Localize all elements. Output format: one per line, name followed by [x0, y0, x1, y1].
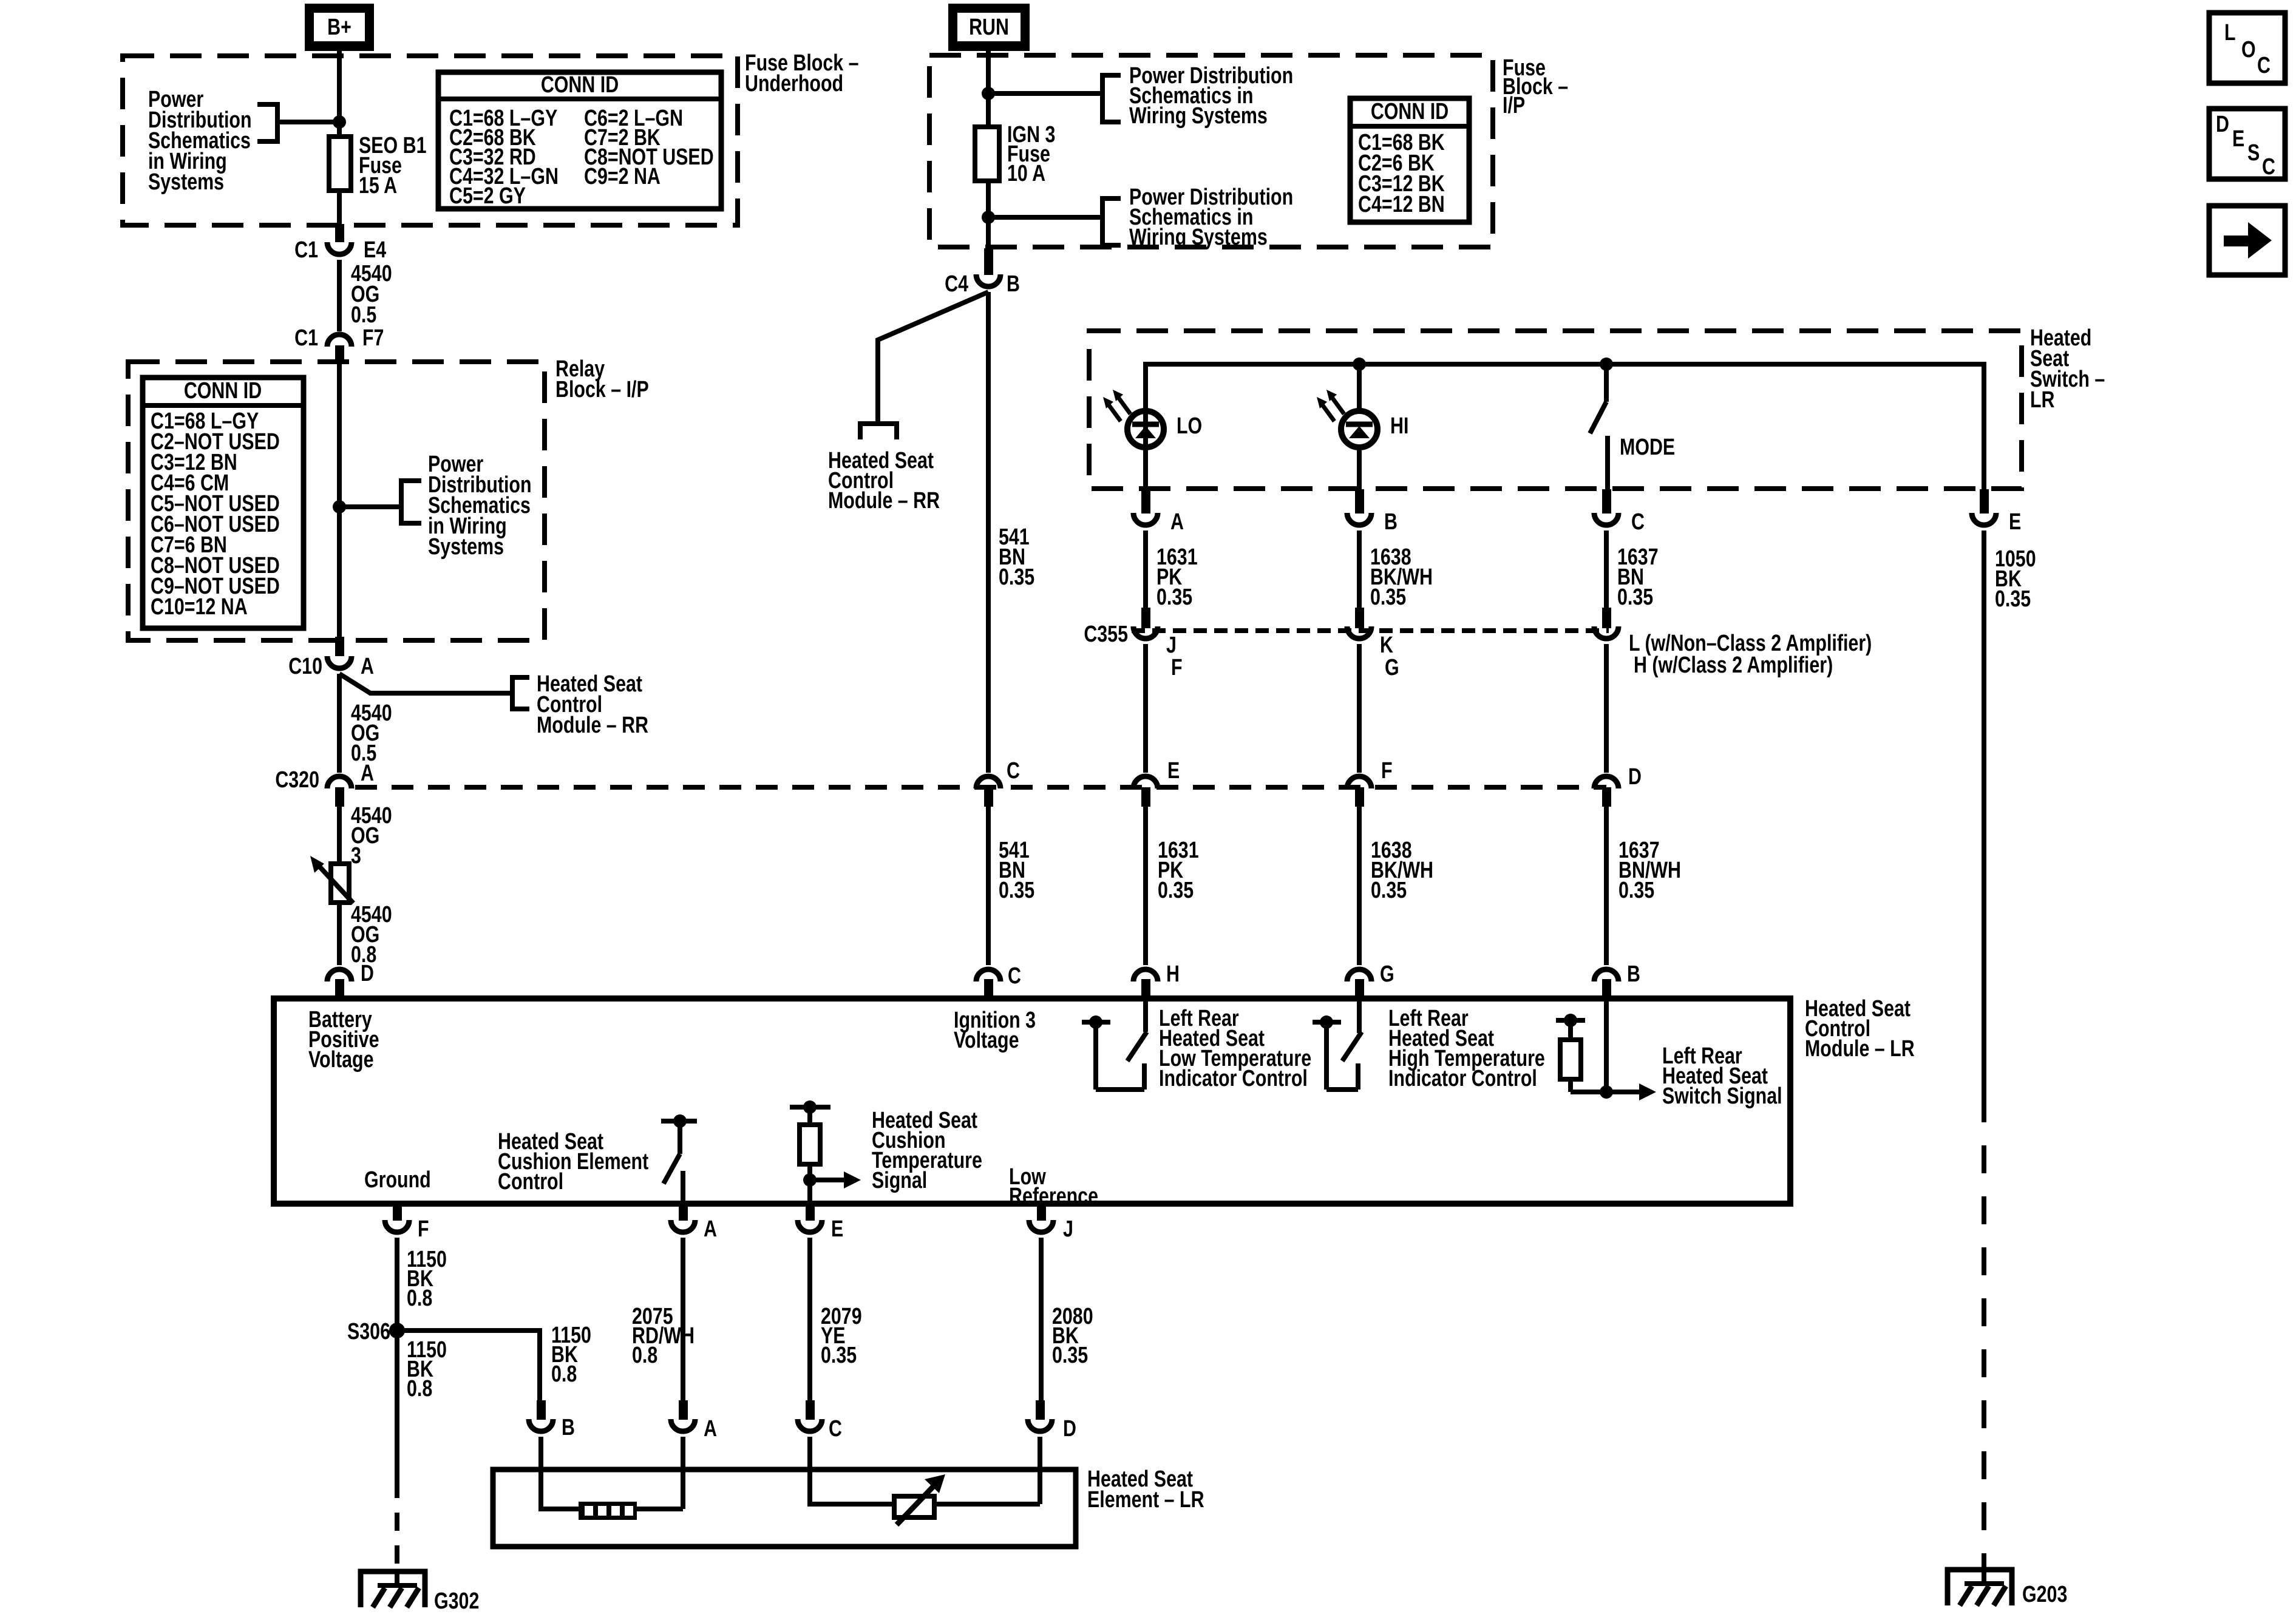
DESC navigation box [2209, 109, 2285, 179]
svg-text:C5=2 GY: C5=2 GY [449, 183, 526, 209]
Heated Seat Control Module - LR box [274, 998, 1790, 1204]
svg-text:MODE: MODE [1620, 435, 1675, 460]
connector pin B (module LR) [1594, 969, 1618, 981]
temperature signal arrow [810, 1178, 845, 1182]
connector pin E (module LR) [806, 1205, 815, 1221]
svg-text:C: C [1631, 509, 1645, 535]
svg-text:0.35: 0.35 [821, 1343, 857, 1368]
Fuse Block - Underhood dashed box [123, 56, 738, 225]
svg-text:C10=12 NA: C10=12 NA [151, 594, 248, 620]
junction dot (ign feed upper) [982, 87, 995, 100]
svg-text:G: G [1385, 655, 1399, 680]
svg-text:H: H [1166, 961, 1180, 987]
wire fuse to lower junction [986, 181, 991, 248]
svg-text:Module – RR: Module – RR [537, 713, 648, 738]
connector C1 cavity F7 [327, 334, 352, 347]
wire to module pin C [986, 807, 991, 965]
wire C355 K to C320 F [1357, 644, 1362, 773]
svg-text:Module – RR: Module – RR [828, 488, 940, 514]
wire C355 L to C320 D [1604, 644, 1609, 773]
dashed wire to G302 [395, 1480, 399, 1570]
indicator LED LO [1127, 411, 1164, 447]
wire MODE to C355 [1604, 531, 1609, 609]
connector D (heated seat element) [1036, 1400, 1045, 1420]
connector C (switch to harness) [1602, 489, 1611, 514]
svg-text:0.35: 0.35 [1371, 878, 1407, 903]
wire C355 J to C320 E [1143, 644, 1148, 773]
svg-text:Indicator Control: Indicator Control [1159, 1066, 1308, 1091]
svg-text:Switch Signal: Switch Signal [1662, 1083, 1782, 1109]
wire element C drop [810, 1437, 894, 1504]
wire S306 branch to element B [397, 1331, 540, 1400]
next-page arrow box [2209, 206, 2285, 275]
svg-text:0.35: 0.35 [1370, 585, 1406, 610]
wire to lower reference bracket [988, 215, 1100, 220]
wire element D drop [1038, 1437, 1042, 1504]
wire to module pin D [337, 903, 342, 965]
svg-text:C1: C1 [294, 325, 318, 351]
low temperature indicator control switch [1082, 1020, 1110, 1025]
wire C320 E to module pin H [1143, 807, 1148, 965]
power symbol B+ box [305, 4, 374, 51]
connector C355 cavity K/G [1355, 608, 1364, 628]
connector E (switch to harness) [1980, 489, 1989, 514]
LOC navigation box [2209, 13, 2285, 83]
svg-text:RUN: RUN [969, 15, 1009, 40]
svg-text:K: K [1380, 632, 1393, 658]
CONN ID table (fuse block underhood) [438, 72, 721, 209]
svg-text:0.8: 0.8 [551, 1361, 577, 1387]
connector C10 cavity A [335, 637, 344, 656]
svg-text:E4: E4 [364, 237, 386, 263]
svg-text:Voltage: Voltage [308, 1047, 374, 1073]
ground G302 [361, 1571, 425, 1607]
high temperature indicator control switch [1313, 1020, 1341, 1025]
reference bracket (power distribution, I/P lower) [1102, 198, 1121, 245]
svg-text:E: E [1167, 758, 1180, 784]
svg-text:C: C [2262, 154, 2275, 180]
svg-text:L: L [2224, 20, 2236, 46]
svg-text:Wiring Systems: Wiring Systems [1129, 225, 1268, 250]
svg-text:O: O [2241, 37, 2256, 63]
svg-text:CONN ID: CONN ID [541, 72, 619, 98]
svg-text:Systems: Systems [428, 534, 504, 560]
reference bracket (power distribution, I/P upper) [1102, 75, 1121, 122]
wire B+ down to fuse SEO B1 [337, 51, 342, 139]
Fuse Block - I/P dashed box [929, 55, 1493, 247]
cushion temperature sense resistor [790, 1105, 830, 1110]
wire pin B to switch signal node [1604, 1002, 1609, 1092]
svg-text:Reference: Reference [1009, 1184, 1098, 1209]
svg-text:0.35: 0.35 [999, 564, 1034, 590]
variable resistance in power feed [331, 864, 349, 903]
connector C355 cavity J/F [1141, 608, 1150, 628]
connector pin H (module LR) [1133, 969, 1158, 981]
svg-text:CONN ID: CONN ID [1371, 99, 1449, 124]
svg-text:Indicator Control: Indicator Control [1388, 1066, 1537, 1091]
in-line connector C355 dotted line [1132, 628, 1609, 633]
connector C (heated seat element) [806, 1400, 815, 1420]
wire junction to reference bracket [279, 120, 339, 124]
svg-text:0.35: 0.35 [1617, 585, 1653, 610]
MODE switch blade [1604, 364, 1609, 402]
switch signal arrow [1606, 1090, 1640, 1094]
svg-text:J: J [1166, 632, 1177, 658]
svg-text:LO: LO [1177, 413, 1202, 439]
wire element B drop [541, 1437, 579, 1509]
connector A (heated seat element) [679, 1400, 688, 1420]
svg-text:0.35: 0.35 [1158, 878, 1194, 903]
wire to connector C1/F7 [337, 260, 342, 331]
svg-text:A: A [361, 654, 374, 679]
connector pin G (module LR) [1347, 969, 1371, 981]
svg-text:Control: Control [498, 1169, 563, 1195]
svg-text:D: D [1063, 1416, 1076, 1442]
wire element A drop [681, 1437, 685, 1509]
junction dot (HI branch) [1353, 358, 1366, 371]
svg-text:C1: C1 [294, 237, 318, 263]
svg-text:H (w/Class 2 Amplifier): H (w/Class 2 Amplifier) [1634, 653, 1833, 678]
svg-text:0.8: 0.8 [632, 1343, 657, 1368]
svg-text:HI: HI [1390, 413, 1408, 439]
svg-text:Signal: Signal [872, 1168, 927, 1193]
splice S306 [389, 1323, 405, 1338]
svg-text:F: F [418, 1216, 429, 1242]
svg-text:C320: C320 [275, 767, 319, 793]
svg-text:Module – LR: Module – LR [1805, 1036, 1915, 1062]
svg-text:0.5: 0.5 [351, 302, 376, 328]
svg-text:Element – LR: Element – LR [1087, 1487, 1204, 1513]
svg-text:Voltage: Voltage [954, 1028, 1019, 1053]
svg-text:D: D [2216, 112, 2229, 137]
fuse IGN 3 10A [975, 127, 999, 181]
svg-text:J: J [1063, 1216, 1073, 1242]
switch supply bus wire [1146, 364, 1984, 489]
svg-text:0.35: 0.35 [1995, 586, 2031, 612]
switch signal sense resistor [1556, 1018, 1585, 1023]
svg-text:C: C [1007, 758, 1020, 784]
svg-text:C10: C10 [288, 654, 322, 679]
wire switch E down (1050 BK) [1982, 531, 1986, 1094]
C320 connector dashed line [355, 785, 1606, 790]
connector C355 cavity L/H [1602, 608, 1611, 628]
reference bracket (power distribution, underhood) [257, 104, 277, 141]
svg-text:E: E [2232, 126, 2244, 152]
CONN ID table (fuse block I/P) [1350, 98, 1469, 222]
svg-text:G302: G302 [434, 1588, 479, 1614]
svg-text:C9=2 NA: C9=2 NA [584, 164, 661, 189]
connector C1 cavity E4 [335, 224, 344, 242]
dashed wire 1050 BK to G203 [1982, 1094, 1986, 1568]
wire junction to relay reference bracket [339, 504, 401, 509]
connector pin C (module LR) [976, 969, 1000, 981]
svg-text:C: C [2257, 53, 2271, 78]
svg-text:G203: G203 [2022, 1582, 2067, 1607]
ignition symbol RUN box [948, 4, 1030, 51]
wire C10/A down to C320 [337, 674, 342, 773]
svg-text:3: 3 [351, 843, 361, 869]
svg-text:E: E [831, 1216, 843, 1242]
svg-text:C4=12 BN: C4=12 BN [1358, 192, 1445, 217]
wire element to A drop [637, 1507, 683, 1511]
svg-text:Underhood: Underhood [745, 71, 843, 97]
svg-text:Block – I/P: Block – I/P [555, 377, 649, 402]
connector B (heated seat element) [537, 1400, 546, 1420]
junction dot (MODE branch) [1600, 358, 1613, 371]
svg-text:C: C [1008, 963, 1021, 989]
svg-text:0.35: 0.35 [1156, 585, 1192, 610]
connector pin A (module LR) [679, 1205, 688, 1221]
connector pin D (module LR) [327, 969, 352, 981]
svg-text:C355: C355 [1084, 622, 1128, 647]
wire pin J down [1039, 1238, 1044, 1400]
connector pin J (module LR) [1037, 1205, 1046, 1221]
Relay Block - I/P dashed box [128, 362, 545, 640]
in-line connector C320 cavity D [1594, 776, 1618, 788]
junction dot (temperature signal) [803, 1173, 817, 1187]
svg-text:E: E [2009, 509, 2021, 535]
wire C320 D to module pin B [1604, 807, 1609, 965]
junction dot (ign feed lower) [982, 211, 995, 224]
wire branch to Heated Seat Control Module RR bracket [339, 674, 512, 693]
svg-text:A: A [361, 761, 374, 786]
svg-text:A: A [704, 1416, 717, 1442]
svg-text:S: S [2247, 140, 2260, 166]
svg-text:0.35: 0.35 [999, 878, 1034, 903]
ground G203 [1948, 1570, 2012, 1605]
wire C320 F to module pin G [1357, 807, 1362, 965]
in-line connector C320 cavity E [1133, 776, 1158, 788]
wire S306 down [395, 1331, 399, 1480]
wire branch to Heated Seat Control Module RR bracket (top) [878, 292, 988, 424]
wire to upper reference bracket [988, 91, 1100, 96]
wire lamp LO to C355 [1143, 531, 1148, 609]
svg-text:10 A: 10 A [1007, 161, 1045, 186]
svg-text:C: C [829, 1416, 842, 1442]
wire F7 down through relay block [337, 362, 342, 638]
wire fuse to connector C1/E4 [337, 191, 342, 225]
wire RUN down [986, 51, 991, 129]
svg-text:C4: C4 [945, 271, 968, 297]
svg-text:D: D [1628, 764, 1642, 790]
svg-text:F: F [1381, 758, 1393, 784]
svg-text:B: B [562, 1415, 575, 1440]
wire C320/A down to splice resistance [337, 807, 342, 865]
thermistor (element temperature sensor) [894, 1496, 934, 1517]
heater element (cushion) [579, 1502, 637, 1520]
Heated Seat Switch - LR dashed box [1089, 331, 2022, 489]
svg-text:F: F [1171, 655, 1183, 680]
svg-text:A: A [1170, 509, 1184, 535]
reference bracket (module RR, top) [860, 424, 897, 439]
connector A (switch to harness) [1141, 489, 1150, 514]
wire 541 BN to C320 row [986, 292, 991, 773]
connector C4 cavity B [984, 248, 993, 275]
cushion element control switch [661, 1119, 697, 1124]
reference bracket (module RR, left) [512, 677, 529, 709]
svg-text:Wiring Systems: Wiring Systems [1129, 103, 1268, 129]
svg-text:A: A [704, 1216, 717, 1242]
svg-text:CONN ID: CONN ID [184, 378, 262, 404]
svg-text:B: B [1627, 961, 1640, 987]
wire pin A down [681, 1238, 685, 1400]
svg-text:I/P: I/P [1503, 93, 1525, 118]
junction dot (relay block feed) [333, 500, 346, 514]
svg-text:Systems: Systems [148, 169, 224, 195]
in-line connector C320 cavity F [1347, 776, 1371, 788]
connector B (switch to harness) [1355, 489, 1364, 514]
svg-text:0.8: 0.8 [407, 1376, 432, 1402]
svg-text:0.35: 0.35 [1618, 878, 1654, 903]
wire pin E down [807, 1238, 812, 1400]
svg-text:B: B [1384, 509, 1398, 535]
svg-text:S306: S306 [347, 1319, 390, 1344]
reference bracket (power distribution, relay block) [401, 481, 421, 523]
in-line connector C320 cavity A [327, 776, 352, 788]
svg-text:D: D [361, 961, 374, 986]
fuse SEO B1 15A [329, 137, 351, 191]
wire pin F to splice S306 [395, 1238, 399, 1331]
svg-text:0.35: 0.35 [1052, 1343, 1088, 1368]
wire thermistor to D drop [934, 1502, 1040, 1507]
Heated Seat Element - LR box [493, 1470, 1076, 1547]
junction dot (switch signal) [1600, 1085, 1613, 1099]
svg-text:15 A: 15 A [359, 173, 397, 198]
junction dot on B+ feed [333, 115, 346, 129]
CONN ID table (relay block) [143, 378, 304, 628]
svg-text:B: B [1007, 271, 1020, 297]
svg-text:B+: B+ [327, 15, 352, 40]
svg-text:G: G [1380, 961, 1394, 987]
indicator LED HI [1341, 411, 1377, 447]
wire lamp HI to C355 [1357, 531, 1362, 609]
svg-text:0.8: 0.8 [407, 1286, 432, 1311]
svg-text:Ground: Ground [364, 1167, 431, 1193]
connector pin F (module LR) [393, 1205, 402, 1221]
in-line connector C320 cavity C [976, 776, 1000, 788]
svg-text:LR: LR [2030, 387, 2055, 413]
svg-text:F7: F7 [362, 325, 384, 351]
